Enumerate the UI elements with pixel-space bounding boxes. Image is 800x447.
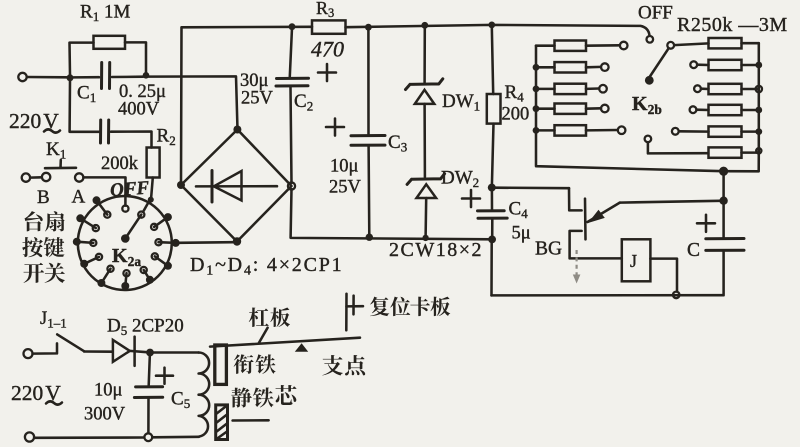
bridge rectifier D1-D4 [181,130,292,242]
resistor R1 [94,36,126,49]
node junction-C1-right [143,72,150,79]
capacitor C1 [74,76,100,79]
svg-text:R250k —3M: R250k —3M [677,14,788,36]
K2a contact 4 [80,260,88,268]
switch K1 terminal [22,173,30,181]
wire down to bottom bus [490,240,493,295]
resistor R2 [147,148,160,178]
svg-text:DW2: DW2 [441,168,479,191]
zener DW1 [423,27,426,83]
svg-text:2CW18×2: 2CW18×2 [389,239,483,261]
node D5-C5 [146,349,154,357]
lever plate [210,338,360,347]
svg-text:OFF: OFF [638,3,673,24]
wire bridge left to rail [180,28,183,182]
svg-text:470: 470 [311,37,344,62]
node C5 bottom donut [144,433,152,441]
wire contact to R6 [648,142,708,153]
capacitor C1b lower [99,120,102,143]
resistor bank-right 3 [709,84,742,94]
resistor bank-left 1 [536,44,555,47]
plus C2 [318,64,336,81]
label fulcrum CJK [322,355,343,376]
wire right bank bus [758,43,761,153]
static core underline [233,419,269,422]
switch J1-1 [33,343,57,353]
wire to bridge top [149,76,237,126]
wire bottom bus [492,294,724,297]
transistor BG [569,188,582,210]
node junction-C1-left [67,74,74,81]
capacitor C2 [290,28,292,77]
svg-text:10μ: 10μ [94,381,123,401]
inductor relay coil [199,353,210,437]
plus C [697,215,715,232]
wire [27,76,67,79]
node C3 top [365,24,372,31]
switch K2b OFF contact [647,36,654,43]
node bus-bottom [719,167,728,176]
label static core CJK [231,387,252,407]
switch K1 button [45,160,76,168]
node collector junction [719,197,727,205]
wire dc-minus bus [291,189,493,239]
node R4 top [488,22,495,29]
K2a contact 9 [172,239,180,247]
capacitor C5 [149,356,150,385]
wire rail right [346,25,650,36]
resistor bank-left 2 [536,66,555,69]
svg-text:R4: R4 [505,82,525,105]
wire R2 bottom [151,178,153,198]
switch K2b hub [645,76,654,85]
svg-text:25V: 25V [241,89,274,109]
svg-text:300V: 300V [84,405,126,425]
K2a contact 6 [121,282,129,290]
K2a contact 10 [164,213,172,221]
svg-text:K1: K1 [46,139,66,162]
resistor bank-left 5 [536,129,555,132]
wire left bank bus [536,46,724,172]
wire R1 loop right [125,42,146,72]
K2a contact 1 [93,196,101,204]
resistor bank-left 4 [536,107,555,110]
node R4 bottom [488,184,496,192]
K2a contact 7 [146,276,154,284]
wire R1 loop left [70,43,94,75]
wire K2a to bridge bottom [179,241,233,244]
svg-text:D1~D4: 4×2CP1: D1~D4: 4×2CP1 [190,254,343,279]
rotary switch K2a outline [78,196,172,290]
wire bottom [34,437,199,438]
resistor R3 [312,20,346,33]
svg-text:C5: C5 [171,389,190,412]
svg-text:R1 1M: R1 1M [80,2,130,25]
svg-text:DW1: DW1 [442,91,480,114]
capacitor C4 [491,190,494,210]
switch K1 contact B [42,173,50,181]
svg-text:C3: C3 [388,132,407,155]
K2a OFF contact [122,206,128,212]
svg-text:C2: C2 [294,91,313,114]
switch K1 contact A [75,173,83,181]
svg-text:200k: 200k [101,154,139,174]
resistor bank-right 4 [709,105,742,115]
resistor bank-right 2 [709,60,742,70]
rotary switch K2a hub [121,234,130,243]
wire to coil [154,351,199,354]
static iron core hatched [216,405,228,440]
resistor bank-left 3 [536,88,555,91]
svg-text:10μ: 10μ [330,157,359,177]
label lever CJK [249,307,269,326]
svg-text:25V: 25V [329,178,362,198]
svg-text:5μ: 5μ [512,224,531,244]
wire [30,176,42,179]
svg-text:J1–1: J1–1 [40,309,67,331]
reset latch symbol [345,294,348,330]
terminal input-top [18,73,26,81]
label fan push switch CJK [25,211,43,231]
svg-text:C1: C1 [77,83,96,106]
svg-text:R3: R3 [316,0,334,20]
diode D5 [113,340,130,362]
svg-text:J: J [630,251,637,271]
terminal input-bottom2 [25,432,34,441]
wire bus to right [724,153,759,172]
svg-text:A: A [72,187,86,208]
svg-text:BG: BG [535,239,562,260]
resistor bank-right 5 [709,126,742,136]
switch K2b bottom contact [645,136,652,143]
K2a contact 2 [76,214,84,222]
plus C3 [326,119,344,136]
resistor R4 [492,26,493,94]
armature bar [215,345,227,384]
svg-text:D5 2CP20: D5 2CP20 [107,316,184,339]
relay J [622,239,651,281]
resistor bank-right 6 [709,147,742,157]
label armature CJK [234,354,254,374]
svg-text:K2b: K2b [632,93,662,117]
wire collector to bus [620,201,720,203]
dashed arrow [575,250,577,275]
svg-text:B: B [37,187,50,208]
wire left branch down [70,81,100,132]
node C2 top [289,23,296,30]
svg-text:K2a: K2a [112,245,141,269]
wire relay right [650,259,677,292]
node DW1 top [421,22,428,29]
wire junction down [722,171,725,197]
terminal input-bottom1 [24,349,33,358]
bridge inner diode [196,185,277,188]
plus C5 [156,368,173,384]
node junction R2-wiper [148,197,154,203]
svg-text:C: C [687,240,700,261]
fulcrum triangle [295,343,308,352]
switch K2b arm [650,48,669,76]
node open junction [673,292,680,299]
wire A to OFF contact [83,177,125,205]
K2a contact 3 [73,238,81,246]
lever pointer [259,328,268,343]
svg-text:C4: C4 [509,199,529,222]
wire to transistor [496,186,570,189]
svg-text:R2: R2 [157,126,176,149]
svg-text:200: 200 [502,105,530,125]
K2a contact 8 [164,262,172,270]
label reset latch CJK [370,297,389,316]
capacitor C3 [367,29,370,135]
K2a contact 5 [97,279,105,287]
zener DW2 [407,174,445,185]
wire top rail [182,26,313,29]
resistor bank-right 1 [709,38,742,48]
K2a wiper arm [125,215,141,239]
capacitor C [722,205,725,238]
plus C4 [462,190,480,207]
svg-text:400V: 400V [118,100,160,120]
